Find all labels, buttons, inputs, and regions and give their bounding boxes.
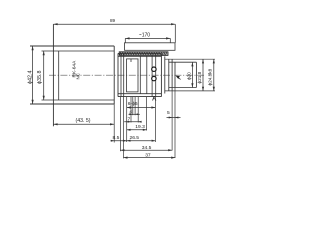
svg-text:ϕ42.4: ϕ42.4	[27, 70, 33, 84]
svg-text:A: A	[152, 96, 157, 103]
svg-text:4: 4	[129, 109, 132, 115]
svg-text:5: 5	[167, 110, 170, 116]
gearbox inner horizontals	[118, 56, 161, 93]
motor can	[30, 24, 114, 126]
screw circle top	[152, 67, 156, 71]
svg-text:~170: ~170	[139, 32, 150, 38]
svg-text:8.5: 8.5	[113, 135, 120, 141]
dim phi35.8	[43, 51, 45, 100]
svg-text:NC: NC	[76, 73, 81, 79]
motor inner body	[42, 51, 115, 100]
dim 8.5 / 26.5	[111, 140, 156, 142]
gearbox inner verticals	[121, 53, 156, 96]
svg-text:37: 37	[145, 152, 151, 158]
dim 19.3	[127, 129, 147, 131]
dim 37	[124, 157, 176, 159]
cable rect	[125, 43, 176, 51]
dim 7	[124, 121, 141, 123]
dim (43.5)	[53, 123, 114, 125]
dim 4	[129, 113, 140, 115]
dim 6-phi6	[127, 107, 156, 109]
svg-text:26.5: 26.5	[130, 135, 140, 141]
extension lines right	[165, 59, 215, 91]
svg-text:ϕ20: ϕ20	[186, 72, 191, 80]
dim 5	[167, 117, 181, 119]
cable hatch band	[119, 52, 168, 56]
leader arrow on shaft rings	[177, 77, 180, 80]
output rings	[165, 56, 175, 93]
dim phi20	[191, 62, 193, 87]
svg-text:ϕ21.8: ϕ21.8	[197, 71, 202, 83]
dim 34.5	[120, 149, 172, 151]
dim 89	[53, 24, 175, 43]
dim phi21.8	[202, 59, 204, 91]
svg-text:6-ϕ6: 6-ϕ6	[128, 101, 138, 107]
phi20 cylinder	[169, 62, 197, 87]
svg-text:(43. 5): (43. 5)	[76, 118, 91, 124]
svg-text:19.3: 19.3	[135, 124, 145, 130]
centerline	[49, 74, 204, 76]
svg-text:7: 7	[128, 117, 131, 123]
dim ~170	[125, 38, 170, 42]
svg-text:34.5: 34.5	[142, 145, 152, 151]
svg-text:ϕ24.8k8: ϕ24.8k8	[208, 68, 213, 85]
svg-text:89: 89	[110, 18, 116, 23]
svg-text:ϕ35.8: ϕ35.8	[37, 70, 43, 84]
dim phi42.4	[32, 46, 34, 104]
gearbox outer	[118, 53, 161, 96]
dim phi24.8k8	[213, 59, 215, 91]
bottom extension lines	[114, 88, 175, 159]
screw circle bottom	[152, 76, 156, 80]
